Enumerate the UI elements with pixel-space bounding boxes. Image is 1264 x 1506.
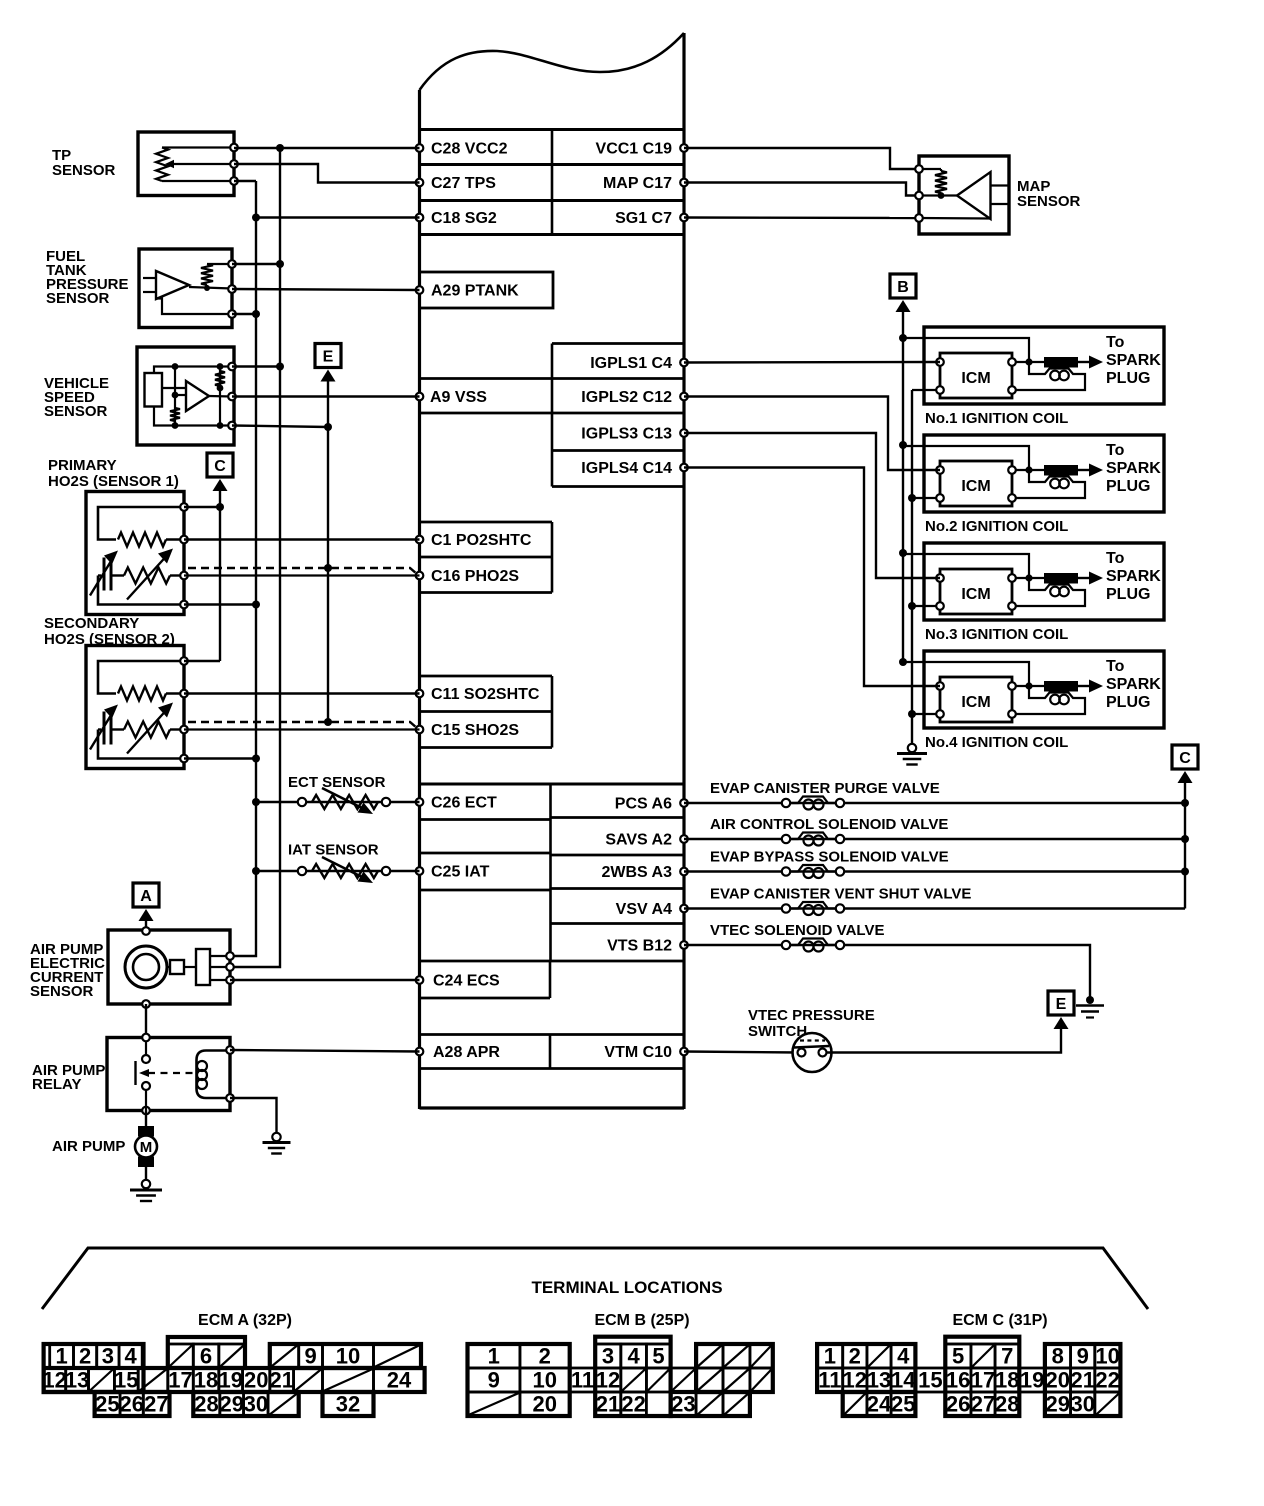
pin C11 SO2SHTC / C15 SHO2S boxes: [416, 676, 552, 748]
svg-text:EVAP BYPASS SOLENOID VALVE: EVAP BYPASS SOLENOID VALVE: [710, 849, 949, 866]
svg-text:28: 28: [194, 1392, 218, 1417]
svg-text:8: 8: [1052, 1344, 1064, 1369]
ECM pin rows C28/C27/C18 + VCC1/MAP/SG1 boxes: [420, 130, 685, 235]
node C (right): [1172, 745, 1198, 909]
wire SHO2S-T4 to SG2 bus: [184, 757, 256, 759]
svg-text:PLUG: PLUG: [1106, 370, 1150, 387]
svg-text:27: 27: [144, 1392, 168, 1417]
wire PHO2S-T4 to SG2 bus: [184, 603, 256, 605]
svg-text:25: 25: [95, 1392, 119, 1417]
pin SG1 C7: [615, 210, 688, 227]
pin VSV A4: [616, 901, 688, 918]
svg-text:SENSOR: SENSOR: [30, 983, 94, 1000]
svg-text:17: 17: [168, 1368, 192, 1393]
svg-text:EVAP CANISTER PURGE VALVE: EVAP CANISTER PURGE VALVE: [710, 780, 940, 797]
svg-text:10: 10: [1095, 1344, 1119, 1369]
svg-text:VSV A4: VSV A4: [616, 901, 672, 918]
svg-text:29: 29: [219, 1392, 243, 1417]
svg-text:C16 PHO2S: C16 PHO2S: [431, 568, 519, 585]
svg-text:4: 4: [125, 1344, 138, 1369]
svg-text:ECM A (32P): ECM A (32P): [198, 1312, 292, 1329]
wire VSS-T3 to E bus: [232, 426, 328, 428]
svg-text:To: To: [1106, 442, 1125, 459]
pin IGPLS3 C13: [581, 426, 688, 443]
svg-text:ICM: ICM: [961, 370, 990, 387]
ECM B (25P) connector grid: [468, 1337, 773, 1417]
pin C26 ECT: [416, 795, 497, 812]
pin VTS B12: [607, 938, 688, 955]
wire SG1 C7 to MAP sensor: [684, 216, 919, 219]
svg-text:10: 10: [336, 1344, 360, 1369]
svg-text:24: 24: [867, 1392, 892, 1417]
svg-text:3: 3: [102, 1344, 114, 1369]
svg-text:EVAP CANISTER VENT SHUT VALVE: EVAP CANISTER VENT SHUT VALVE: [710, 886, 971, 903]
svg-text:19: 19: [1020, 1368, 1044, 1393]
wire TP-T3 to SG2 bus: [234, 180, 256, 182]
svg-text:15: 15: [918, 1368, 942, 1393]
svg-text:SENSOR: SENSOR: [44, 403, 108, 420]
svg-text:29: 29: [1046, 1392, 1070, 1417]
wire VTM C10 to VTEC pressure switch: [684, 1052, 798, 1053]
svg-text:HO2S (SENSOR 1): HO2S (SENSOR 1): [48, 473, 179, 490]
wire IGPLS1 C4 to No.1 ICM: [684, 361, 940, 364]
svg-text:E: E: [323, 349, 334, 366]
wire VCC2 bus (vertical): [230, 144, 284, 967]
svg-text:12: 12: [843, 1368, 867, 1393]
svg-text:SENSOR: SENSOR: [46, 290, 110, 307]
svg-text:To: To: [1106, 658, 1125, 675]
label ECM C (31P): [952, 1312, 1047, 1329]
pin IGPLS1 C4: [590, 355, 688, 372]
svg-text:IGPLS2 C12: IGPLS2 C12: [581, 389, 672, 406]
svg-text:C18 SG2: C18 SG2: [431, 210, 497, 227]
ECM A (32P) connector grid: [42, 1337, 424, 1417]
svg-text:ICM: ICM: [961, 478, 990, 495]
pin A9 VSS box: [416, 379, 552, 414]
svg-text:26: 26: [946, 1392, 970, 1417]
svg-text:B: B: [897, 279, 909, 296]
svg-text:PCS A6: PCS A6: [615, 796, 672, 813]
svg-text:19: 19: [218, 1368, 242, 1393]
svg-text:IAT SENSOR: IAT SENSOR: [288, 842, 379, 859]
primary HO2S (sensor 1): [48, 457, 188, 615]
svg-text:M: M: [140, 1139, 153, 1156]
No.4 ignition coil: [903, 651, 1164, 728]
wire relay coil to ground: [230, 1098, 277, 1133]
svg-text:20: 20: [1046, 1368, 1070, 1393]
svg-text:13: 13: [65, 1368, 89, 1393]
secondary HO2S (sensor 2): [44, 615, 188, 769]
svg-text:IGPLS3 C13: IGPLS3 C13: [581, 426, 672, 443]
wire IGPLS3 C13 to No.3 ICM: [684, 433, 940, 578]
pin PCS A6: [615, 796, 688, 813]
air pump motor: [52, 1111, 157, 1181]
ground (relay): [263, 1133, 291, 1154]
label TERMINAL LOCATIONS: [531, 1278, 722, 1297]
wire MAP C17 to MAP sensor: [684, 183, 919, 196]
svg-text:No.3 IGNITION COIL: No.3 IGNITION COIL: [925, 626, 1068, 643]
svg-text:C11 SO2SHTC: C11 SO2SHTC: [431, 686, 540, 703]
wire relay coil to A28 APR: [230, 1050, 420, 1052]
svg-text:PLUG: PLUG: [1106, 478, 1150, 495]
node A: [133, 883, 159, 930]
svg-text:22: 22: [1095, 1368, 1119, 1393]
pin A29 PTANK box: [416, 272, 553, 308]
svg-text:ECM B (25P): ECM B (25P): [594, 1312, 689, 1329]
pin VCC1 C19: [596, 141, 688, 158]
pin A28 APR / VTM C10 row: [416, 1035, 688, 1069]
EVAP BYPASS SOLENOID VALVE: [684, 849, 1185, 879]
wire SHO2S-T2 to C11 SO2SHTC: [184, 692, 420, 694]
svg-text:9: 9: [1077, 1344, 1089, 1369]
wire PHO2S-T1 to C bus: [184, 506, 220, 508]
svg-text:15: 15: [114, 1368, 138, 1393]
svg-text:18: 18: [995, 1368, 1019, 1393]
svg-text:SG1 C7: SG1 C7: [615, 210, 672, 227]
terminal locations panel border: [42, 1248, 1148, 1309]
label No.3 ignition coil: [925, 626, 1068, 643]
svg-text:30: 30: [244, 1392, 268, 1417]
svg-text:SPARK: SPARK: [1106, 460, 1161, 477]
svg-text:21: 21: [1070, 1368, 1094, 1393]
wire TP-T2 to C27 TPS: [234, 164, 420, 183]
ground (air pump): [130, 1180, 162, 1201]
wire VSS-T2 to A9 VSS: [232, 395, 420, 397]
svg-text:MAP C17: MAP C17: [603, 175, 672, 192]
fuel tank pressure sensor: [46, 248, 236, 328]
wire ICM ground bus: [908, 390, 916, 744]
ground (ignition coils): [897, 744, 927, 765]
pin C1 PO2SHTC / C16 PHO2S boxes: [416, 522, 552, 593]
wire APS-T3 to C24 ECS: [230, 979, 420, 981]
svg-text:25: 25: [891, 1392, 915, 1417]
svg-text:6: 6: [200, 1344, 212, 1369]
IGPLS pin boxes: [552, 344, 684, 487]
svg-text:2WBS A3: 2WBS A3: [601, 864, 672, 881]
wire IGPLS4 C14 to No.4 ICM: [684, 468, 940, 687]
wire IGPLS2 C12 to No.2 ICM: [684, 397, 940, 471]
svg-text:ICM: ICM: [961, 586, 990, 603]
wire VTEC switch to E: [826, 1027, 1061, 1053]
EVAP CANISTER PURGE VALVE: [684, 780, 1185, 810]
svg-text:SENSOR: SENSOR: [52, 162, 116, 179]
MAP sensor: [915, 156, 1080, 234]
svg-text:SECONDARY: SECONDARY: [44, 615, 139, 632]
svg-text:SENSOR: SENSOR: [1017, 193, 1081, 210]
pin 2WBS A3: [601, 864, 687, 881]
ground (VTEC solenoid valve): [1076, 996, 1104, 1018]
svg-text:SPARK: SPARK: [1106, 676, 1161, 693]
pin C18 SG2: [416, 210, 497, 227]
shield dashed wire to C15: [188, 722, 417, 728]
svg-text:5: 5: [652, 1344, 664, 1369]
ECM block outline: [420, 33, 685, 1109]
node E (right): [1048, 991, 1074, 1029]
svg-text:A28 APR: A28 APR: [433, 1044, 500, 1061]
No.2 ignition coil: [903, 435, 1164, 512]
wire FTP-T2 to A29 PTANK: [232, 289, 420, 290]
TP sensor: [52, 132, 238, 196]
svg-text:30: 30: [1070, 1392, 1094, 1417]
wire TP-T1 to C28 VCC2: [234, 147, 420, 149]
wire PHO2S-T2 to C1 PO2SHTC: [184, 538, 420, 540]
wire VSS-T1 to VCC2 bus: [232, 365, 280, 367]
pin C24 ECS: [416, 973, 500, 990]
label No.2 ignition coil: [925, 518, 1068, 535]
svg-text:ICM: ICM: [961, 694, 990, 711]
svg-text:SPARK: SPARK: [1106, 352, 1161, 369]
svg-text:VCC1 C19: VCC1 C19: [596, 141, 673, 158]
pin SAVS A2: [605, 832, 687, 849]
svg-text:2: 2: [849, 1344, 861, 1369]
svg-text:1: 1: [55, 1344, 67, 1369]
svg-text:RELAY: RELAY: [32, 1076, 81, 1093]
svg-text:C24 ECS: C24 ECS: [433, 973, 500, 990]
svg-text:20: 20: [533, 1392, 557, 1417]
ECM C (31P) connector grid: [817, 1337, 1120, 1417]
svg-text:16: 16: [946, 1368, 970, 1393]
pin IGPLS4 C14: [581, 460, 688, 477]
svg-text:VTEC PRESSURE: VTEC PRESSURE: [748, 1007, 875, 1024]
svg-text:To: To: [1106, 334, 1125, 351]
wire PHO2S-T3 to C16 PHO2S: [184, 574, 420, 576]
svg-text:18: 18: [194, 1368, 218, 1393]
svg-text:4: 4: [897, 1344, 910, 1369]
label No.1 ignition coil: [925, 410, 1068, 427]
node E ground bus near VSS: [315, 344, 341, 727]
pin C25 IAT: [416, 864, 490, 881]
svg-text:17: 17: [971, 1368, 995, 1393]
air pump relay: [32, 1034, 234, 1115]
svg-text:12: 12: [596, 1368, 620, 1393]
svg-text:C25 IAT: C25 IAT: [431, 864, 490, 881]
svg-text:2: 2: [539, 1344, 551, 1369]
svg-text:To: To: [1106, 550, 1125, 567]
wire FTP-T3 to SG2 bus: [232, 313, 256, 315]
svg-text:IGPLS4 C14: IGPLS4 C14: [581, 460, 672, 477]
shield dashed wire to C16: [188, 568, 417, 574]
svg-text:VTM C10: VTM C10: [604, 1044, 672, 1061]
svg-text:23: 23: [671, 1392, 695, 1417]
svg-text:E: E: [1056, 996, 1067, 1013]
svg-text:32: 32: [336, 1392, 360, 1417]
svg-text:1: 1: [488, 1344, 500, 1369]
svg-text:IGPLS1 C4: IGPLS1 C4: [590, 355, 672, 372]
VTEC pressure switch: [748, 1007, 875, 1072]
svg-text:C: C: [1179, 750, 1191, 767]
pin C28 VCC2: [416, 141, 508, 158]
svg-text:14: 14: [891, 1368, 916, 1393]
svg-text:C: C: [214, 458, 226, 475]
svg-text:5: 5: [952, 1344, 964, 1369]
svg-text:26: 26: [119, 1392, 143, 1417]
svg-text:28: 28: [995, 1392, 1019, 1417]
svg-text:A: A: [140, 888, 152, 905]
svg-text:13: 13: [867, 1368, 891, 1393]
label No.4 ignition coil: [925, 734, 1068, 751]
svg-text:VTEC SOLENOID VALVE: VTEC SOLENOID VALVE: [710, 922, 884, 939]
svg-text:PRIMARY: PRIMARY: [48, 457, 117, 474]
label ECM B (25P): [594, 1312, 689, 1329]
svg-text:4: 4: [627, 1344, 640, 1369]
svg-text:1: 1: [824, 1344, 836, 1369]
wire VCC1 C19 to MAP sensor: [684, 148, 919, 169]
svg-text:VTS B12: VTS B12: [607, 938, 672, 955]
svg-text:No.2 IGNITION COIL: No.2 IGNITION COIL: [925, 518, 1068, 535]
svg-text:A29 PTANK: A29 PTANK: [431, 283, 519, 300]
wire SHO2S-T3 to C15 SHO2S: [184, 728, 420, 730]
svg-text:No.4 IGNITION COIL: No.4 IGNITION COIL: [925, 734, 1068, 751]
svg-text:22: 22: [621, 1392, 645, 1417]
svg-text:C1 PO2SHTC: C1 PO2SHTC: [431, 532, 532, 549]
No.1 ignition coil: [903, 327, 1164, 404]
ECM lower pin block borders: [420, 784, 685, 998]
svg-text:9: 9: [304, 1344, 316, 1369]
svg-text:TERMINAL LOCATIONS: TERMINAL LOCATIONS: [531, 1278, 722, 1297]
svg-text:C27 TPS: C27 TPS: [431, 175, 496, 192]
svg-text:27: 27: [971, 1392, 995, 1417]
node C bus near HO2S: [207, 453, 233, 661]
vehicle speed sensor: [44, 347, 236, 445]
wire APS bottom to relay: [145, 1004, 147, 1038]
svg-text:24: 24: [387, 1368, 412, 1393]
svg-text:A9 VSS: A9 VSS: [430, 389, 487, 406]
wire SHO2S-T1 to C bus: [184, 660, 220, 662]
svg-text:9: 9: [488, 1368, 500, 1393]
svg-text:C26 ECT: C26 ECT: [431, 795, 497, 812]
pin IGPLS2 C12: [581, 389, 688, 406]
svg-text:21: 21: [596, 1392, 620, 1417]
svg-text:AIR CONTROL SOLENOID VALVE: AIR CONTROL SOLENOID VALVE: [710, 816, 948, 833]
svg-text:C28 VCC2: C28 VCC2: [431, 141, 508, 158]
wire FTP-T1 to VCC2 bus: [232, 263, 280, 265]
node B: [890, 274, 916, 666]
ECT sensor: [256, 774, 420, 814]
VTEC SOLENOID VALVE: [684, 922, 1090, 1000]
svg-text:11: 11: [571, 1368, 594, 1393]
svg-text:No.1 IGNITION COIL: No.1 IGNITION COIL: [925, 410, 1068, 427]
svg-text:12: 12: [42, 1368, 66, 1393]
svg-text:10: 10: [533, 1368, 557, 1393]
label ECM A (32P): [198, 1312, 292, 1329]
air pump electric current sensor: [30, 927, 234, 1008]
svg-text:PLUG: PLUG: [1106, 586, 1150, 603]
wire SG2 bus (vertical): [230, 181, 260, 956]
svg-text:2: 2: [79, 1344, 91, 1369]
svg-text:20: 20: [244, 1368, 268, 1393]
svg-text:C15 SHO2S: C15 SHO2S: [431, 722, 519, 739]
No.3 ignition coil: [903, 543, 1164, 620]
IAT sensor: [256, 842, 420, 884]
pin MAP C17: [603, 175, 688, 192]
svg-text:ECT SENSOR: ECT SENSOR: [288, 774, 386, 791]
wire C18 SG2 stub: [256, 216, 420, 218]
svg-text:11: 11: [818, 1368, 841, 1393]
AIR CONTROL SOLENOID VALVE: [684, 816, 1185, 846]
svg-text:7: 7: [1001, 1344, 1013, 1369]
svg-text:ECM C (31P): ECM C (31P): [952, 1312, 1047, 1329]
svg-text:PLUG: PLUG: [1106, 694, 1150, 711]
svg-text:3: 3: [602, 1344, 614, 1369]
svg-text:AIR PUMP: AIR PUMP: [52, 1138, 125, 1155]
svg-text:SPARK: SPARK: [1106, 568, 1161, 585]
svg-text:21: 21: [269, 1368, 293, 1393]
pin C27 TPS: [416, 175, 497, 192]
svg-text:SAVS A2: SAVS A2: [605, 832, 672, 849]
EVAP CANISTER VENT SHUT VALVE: [684, 886, 1185, 916]
